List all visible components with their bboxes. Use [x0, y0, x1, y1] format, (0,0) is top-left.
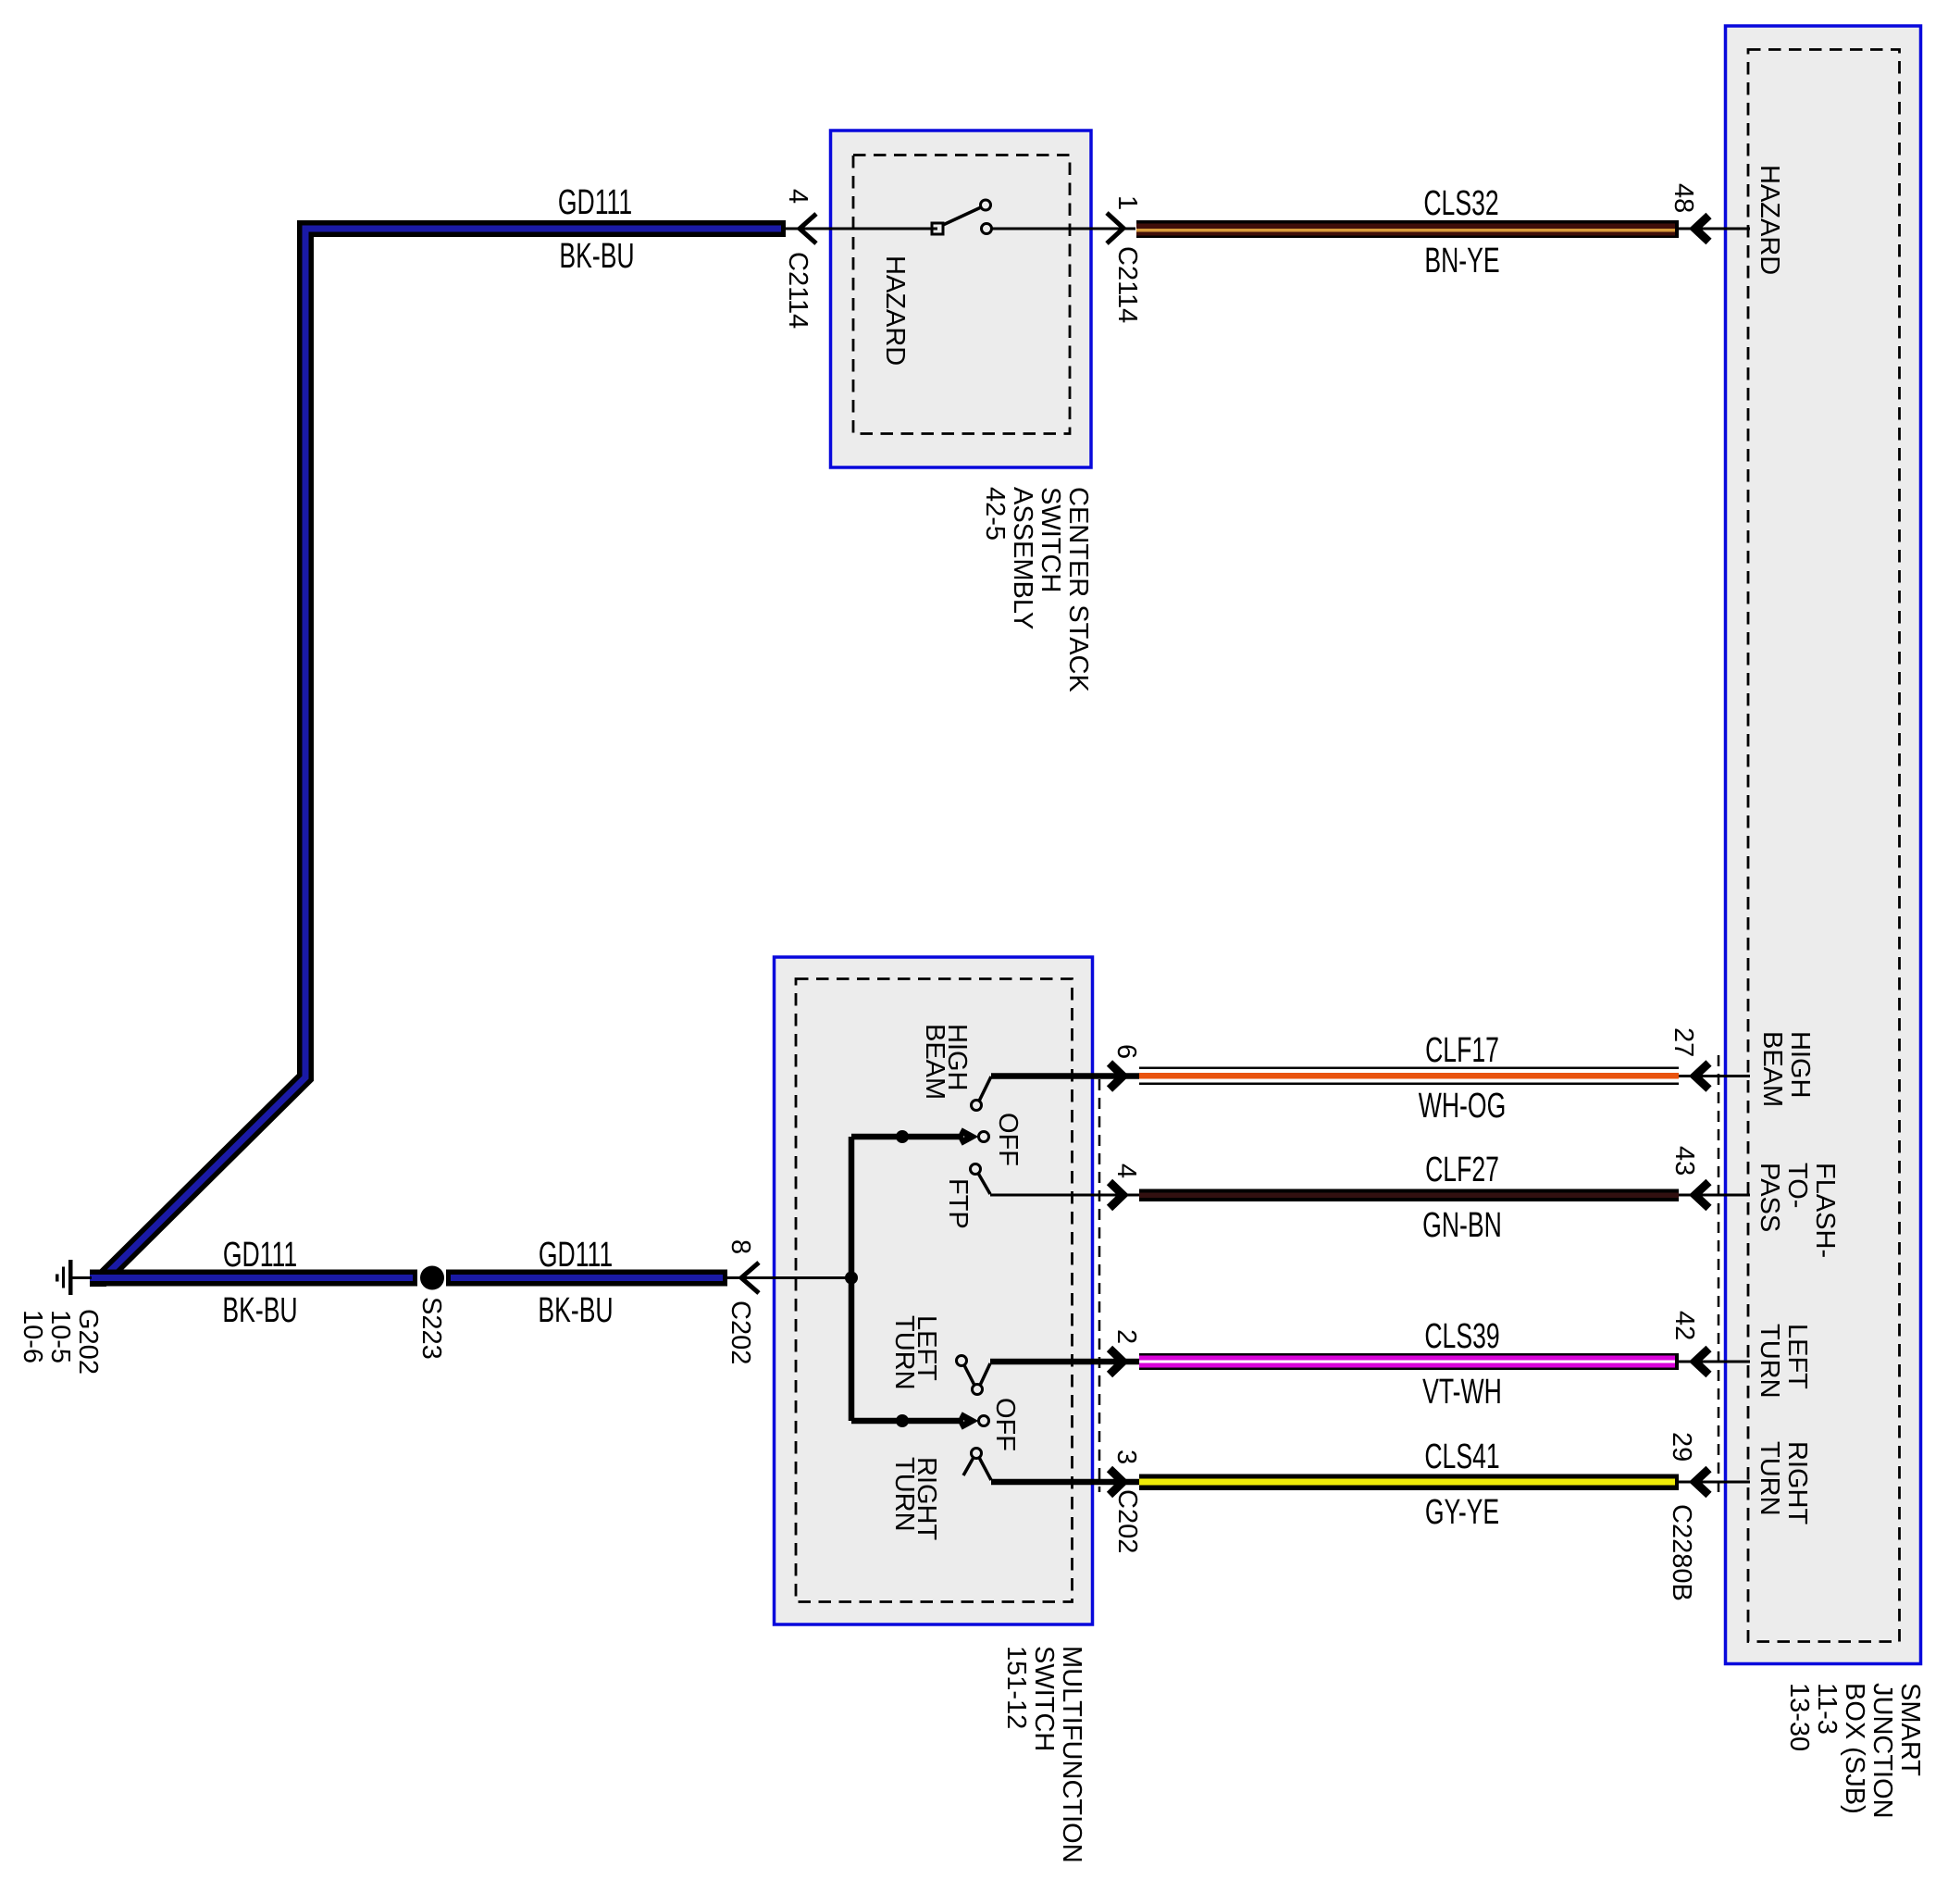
svg-text:CLS41: CLS41 — [1424, 1436, 1499, 1475]
arrow into SJB pin 48 — [1695, 216, 1709, 242]
wire: thin lead into SJB pin 29 — [1679, 1481, 1750, 1484]
svg-text:BK-BU: BK-BU — [222, 1289, 297, 1329]
arrow MFS pin 4 — [1110, 1182, 1123, 1208]
connector C2280B dashed line at SJB — [1718, 1055, 1720, 1494]
arrow MFS pin 3 — [1110, 1469, 1123, 1495]
svg-text:SWITCH: SWITCH — [1036, 487, 1065, 592]
svg-text:1: 1 — [1112, 195, 1142, 210]
svg-text:GD111: GD111 — [539, 1234, 613, 1274]
wire: thin lead C202 pin 8 into MFS — [727, 1276, 851, 1279]
wire: thin lead hazard switch to pin 1 — [990, 228, 1135, 230]
svg-text:WH-OG: WH-OG — [1419, 1085, 1507, 1125]
svg-text:BK-BU: BK-BU — [559, 235, 634, 275]
label SMART JUNCTION BOX (SJB) 11-3 13-30 — [1784, 1683, 1925, 1819]
label RIGHT TURN (SJB) — [1755, 1441, 1812, 1525]
svg-text:FLASH-: FLASH- — [1810, 1163, 1840, 1258]
wire: thin lead into SJB pin 42 — [1679, 1361, 1750, 1363]
box: SMART JUNCTION BOX (SJB) — [1726, 26, 1921, 1664]
svg-text:C2280B: C2280B — [1667, 1504, 1696, 1601]
arrow into SJB pin 29 — [1695, 1469, 1709, 1495]
svg-text:48: 48 — [1669, 183, 1698, 213]
wire: right-turn output (MFS pin 3) — [991, 1479, 1139, 1486]
label LEFT TURN (MFS internal) — [889, 1315, 941, 1390]
svg-text:CENTER STACK: CENTER STACK — [1063, 487, 1093, 692]
label RIGHT TURN (MFS internal) — [889, 1457, 941, 1541]
svg-text:SWITCH: SWITCH — [1029, 1646, 1059, 1751]
arrow MFS pin 6 — [1110, 1064, 1123, 1089]
svg-text:29: 29 — [1667, 1432, 1696, 1462]
svg-text:C202: C202 — [1112, 1489, 1142, 1553]
label FLASH-TO-PASS (SJB) — [1755, 1163, 1840, 1258]
svg-text:OFF: OFF — [993, 1113, 1023, 1166]
svg-text:CLS39: CLS39 — [1424, 1315, 1499, 1355]
connector C202 dashed line at multifunction switch — [1098, 1079, 1101, 1492]
arrow into SJB pin 42 — [1695, 1349, 1709, 1375]
svg-text:43: 43 — [1669, 1146, 1699, 1176]
svg-text:VT-WH: VT-WH — [1422, 1371, 1502, 1411]
box: CENTER STACK SWITCH ASSEMBLY (hazard switch block) — [831, 131, 1092, 467]
arrow into SJB pin 43 — [1695, 1182, 1709, 1208]
junction dot OFF row lower — [896, 1414, 909, 1427]
ground label G202 10-5 10-6 — [18, 1309, 103, 1375]
svg-text:PASS: PASS — [1755, 1163, 1784, 1232]
wire CLS39 VT-WH (MFS pin 2 to SJB pin 42) — [1139, 1353, 1679, 1370]
wire: FTP output lead to MFS pin 4 — [990, 1194, 1139, 1197]
svg-text:S223: S223 — [416, 1297, 446, 1360]
svg-text:42: 42 — [1669, 1311, 1699, 1340]
label LEFT TURN (SJB) — [1755, 1324, 1812, 1399]
arrow into SJB pin 27 — [1695, 1064, 1709, 1089]
wire GD111 BK-BU (ground to splice S223) — [90, 1270, 417, 1287]
svg-text:GN-BN: GN-BN — [1422, 1204, 1502, 1244]
junction dot OFF row upper — [896, 1130, 909, 1143]
svg-text:HIGH: HIGH — [1785, 1031, 1815, 1099]
connector arrow C2114 pin 4 — [800, 214, 816, 243]
wire GD111 BK-BU (top run, vertical run and diagonal to ground) — [90, 229, 786, 1278]
arrow MFS pin 2 — [1110, 1349, 1123, 1375]
wire: thin lead through hazard switch pin 4 — [786, 228, 937, 230]
wire GD111 BK-BU (splice S223 to C202 pin 8) — [446, 1270, 727, 1287]
svg-text:FTP: FTP — [943, 1178, 973, 1229]
wire CLS41 GY-YE (MFS pin 3 to SJB pin 29) — [1139, 1475, 1679, 1491]
svg-text:27: 27 — [1669, 1027, 1698, 1057]
svg-text:GD111: GD111 — [558, 181, 632, 221]
svg-text:GY-YE: GY-YE — [1425, 1491, 1499, 1531]
wire CLS32 BN-YE (hazard pin 1 to SJB pin 48) — [1136, 220, 1679, 238]
svg-text:11-3: 11-3 — [1812, 1683, 1842, 1735]
wire: thin lead into SJB pin 27 — [1679, 1075, 1750, 1077]
box: MULTIFUNCTION SWITCH block — [775, 957, 1093, 1624]
svg-text:4: 4 — [1111, 1164, 1141, 1178]
svg-text:SMART: SMART — [1895, 1683, 1925, 1776]
svg-text:8: 8 — [726, 1239, 755, 1254]
svg-text:4: 4 — [783, 189, 813, 204]
label HIGH BEAM (MFS internal) — [920, 1024, 972, 1100]
hazard switch SW1 (inside CSSA box) — [932, 200, 992, 234]
svg-text:BOX (SJB): BOX (SJB) — [1840, 1683, 1869, 1814]
svg-text:LEFT: LEFT — [1782, 1324, 1812, 1389]
svg-text:G202: G202 — [73, 1309, 103, 1375]
svg-text:RIGHT: RIGHT — [1782, 1441, 1812, 1525]
wire CLF17 WH-OG (MFS pin 6 to SJB pin 27) — [1139, 1067, 1679, 1086]
headlamp beam selector switch (high beam / off / FTP) — [961, 1076, 991, 1194]
svg-text:BK-BU: BK-BU — [538, 1289, 613, 1329]
svg-text:TURN: TURN — [889, 1457, 919, 1532]
svg-text:HAZARD: HAZARD — [880, 255, 910, 366]
svg-text:10-5: 10-5 — [45, 1310, 75, 1363]
wire: OFF row lower (turn switch common) — [851, 1418, 963, 1425]
svg-text:HAZARD: HAZARD — [1755, 165, 1784, 275]
svg-text:C202: C202 — [726, 1300, 755, 1364]
svg-text:13-30: 13-30 — [1784, 1683, 1814, 1751]
svg-text:OFF: OFF — [990, 1398, 1020, 1451]
svg-text:BEAM: BEAM — [920, 1024, 949, 1100]
label MULTIFUNCTION SWITCH 151-12 — [1001, 1646, 1086, 1863]
svg-text:TURN: TURN — [1755, 1441, 1784, 1516]
splice S223 — [420, 1266, 444, 1290]
svg-text:TURN: TURN — [1755, 1324, 1784, 1399]
svg-text:BEAM: BEAM — [1757, 1031, 1787, 1107]
turn signal switch (left turn / off / right turn) — [957, 1356, 992, 1481]
connector arrow C2114 pin 1 — [1107, 213, 1123, 243]
label HIGH BEAM (SJB) — [1757, 1031, 1815, 1107]
svg-text:MULTIFUNCTION: MULTIFUNCTION — [1057, 1646, 1086, 1863]
svg-text:10-6: 10-6 — [18, 1310, 47, 1363]
svg-text:GD111: GD111 — [223, 1234, 297, 1274]
svg-text:BN-YE: BN-YE — [1424, 240, 1499, 280]
wire: vertical bus inside MFS — [849, 1137, 855, 1421]
wire: thin lead into SJB pin 48 — [1679, 228, 1750, 230]
wire: thin lead into SJB pin 43 — [1679, 1194, 1750, 1197]
wire: OFF row upper (headlamp switch common) — [851, 1134, 963, 1140]
svg-text:TURN: TURN — [889, 1315, 919, 1390]
svg-text:CLS32: CLS32 — [1423, 182, 1498, 222]
svg-text:JUNCTION: JUNCTION — [1867, 1683, 1897, 1819]
svg-text:42-5: 42-5 — [980, 487, 1010, 541]
wire: high-beam output (MFS pin 6) — [991, 1073, 1139, 1079]
svg-text:CLF17: CLF17 — [1425, 1029, 1499, 1069]
svg-text:2: 2 — [1111, 1329, 1141, 1344]
svg-text:C2114: C2114 — [783, 252, 813, 329]
svg-text:ASSEMBLY: ASSEMBLY — [1008, 487, 1037, 629]
junction dot on bus at pin-8 feed — [845, 1272, 858, 1285]
label CENTER STACK SWITCH ASSEMBLY 42-5 — [980, 487, 1093, 692]
svg-text:3: 3 — [1111, 1450, 1141, 1464]
svg-text:C2114: C2114 — [1112, 246, 1142, 323]
svg-text:TO-: TO- — [1782, 1163, 1812, 1208]
connector arrow C202 pin 8 — [741, 1263, 759, 1293]
svg-text:CLF27: CLF27 — [1425, 1149, 1499, 1188]
ground G202 — [56, 1260, 92, 1295]
wire: left-turn output (MFS pin 2) — [990, 1359, 1139, 1365]
svg-text:6: 6 — [1111, 1044, 1141, 1059]
svg-text:151-12: 151-12 — [1001, 1646, 1031, 1729]
wire CLF27 GN-BN (MFS pin 4 to SJB pin 43) — [1139, 1189, 1679, 1202]
